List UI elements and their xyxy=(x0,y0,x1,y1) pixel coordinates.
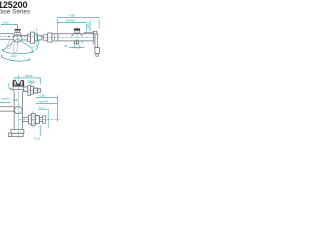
arc arrowheads xyxy=(1,49,34,60)
flow arrow on spout centerline xyxy=(8,36,10,37)
handle stem xyxy=(16,31,20,33)
outlet 2 far pipe xyxy=(39,117,42,121)
under-pipe box xyxy=(74,41,79,44)
dim line overall length xyxy=(57,17,99,19)
outlet 1 pipe xyxy=(22,87,27,92)
svg-text:Vase Series: Vase Series xyxy=(0,9,30,16)
outlet 2 pipe xyxy=(22,117,28,121)
left dim line xyxy=(0,102,11,104)
hex nut xyxy=(14,107,23,114)
valve centerline xyxy=(76,27,78,50)
wall plate edge xyxy=(92,31,94,43)
pipe nipple D xyxy=(38,35,42,40)
outlet 1 flange B xyxy=(31,86,34,94)
svg-text:G1/2: G1/2 xyxy=(86,22,90,29)
horizontal centerline of spout xyxy=(0,36,44,38)
pipe top and bottom xyxy=(58,34,93,41)
valve body circle xyxy=(13,35,22,42)
dim line 150 xyxy=(57,22,86,24)
outer swivel arc xyxy=(1,57,30,61)
spout stubs to left xyxy=(0,107,14,111)
wall plate tip xyxy=(96,53,98,56)
swivel line left xyxy=(3,39,18,51)
outlet 2 flange A xyxy=(28,115,31,124)
flange rect C xyxy=(35,34,38,41)
svg-text:≈100: ≈100 xyxy=(3,21,10,25)
svg-text:240°: 240° xyxy=(11,54,18,58)
rotated spout ghost 1 xyxy=(7,39,13,49)
bottom leader G1/2 xyxy=(39,126,41,136)
spout bottom edge xyxy=(0,38,13,40)
outlet 2 v centerline xyxy=(32,111,34,128)
lever grip (top view) xyxy=(74,29,80,31)
svg-text:150±15: 150±15 xyxy=(66,18,76,22)
leader G1/2 vertical xyxy=(89,21,91,31)
wall plate foot xyxy=(95,48,100,54)
flange centerline xyxy=(35,29,37,48)
cup dark prongs and valley xyxy=(14,82,23,87)
pipe to wall flange xyxy=(22,36,28,40)
svg-text:150±5: 150±5 xyxy=(25,74,33,78)
foot base xyxy=(11,129,24,133)
outlet 2 h centerline xyxy=(19,118,60,120)
G1/2 leader on flange xyxy=(36,41,39,51)
valve escutcheon trapezoid xyxy=(72,34,83,37)
outlet 1 centerline xyxy=(23,89,42,91)
outlet 2 end xyxy=(42,116,45,123)
svg-text:G1/2: G1/2 xyxy=(39,106,46,110)
outlet 1 nut xyxy=(33,88,37,93)
flange rect B xyxy=(31,32,35,43)
outlet 1 flange A xyxy=(28,85,31,95)
svg-text:G1/2: G1/2 xyxy=(34,137,41,141)
left connector rect B xyxy=(48,33,52,42)
handle bar (lever grip) xyxy=(15,29,21,30)
svg-text:≈285: ≈285 xyxy=(69,13,76,17)
svg-text:35: 35 xyxy=(64,44,68,48)
rotated spout ghost 2 xyxy=(13,40,18,53)
left connector rect A xyxy=(44,35,48,41)
vertical dim right xyxy=(56,96,58,122)
flange rect A xyxy=(28,34,31,41)
spout top edge xyxy=(0,33,14,35)
outlet 2 flange B xyxy=(31,114,35,126)
left connector cylinder xyxy=(52,34,58,41)
svg-text:max.40: max.40 xyxy=(1,96,10,100)
bonnet trapezoid xyxy=(14,33,22,36)
dim 35 under box xyxy=(69,47,85,49)
inner swivel arc xyxy=(2,51,33,54)
vertical centerline of handle xyxy=(17,27,19,45)
foot lip xyxy=(8,133,11,136)
top dim 150 xyxy=(14,77,40,79)
raised wall-end line xyxy=(84,32,94,33)
wall plate top step xyxy=(93,31,97,34)
handle front view (cup with horns) xyxy=(13,80,24,86)
rotation arc near handle xyxy=(9,83,11,90)
flow arrow xyxy=(12,99,16,101)
svg-text:35: 35 xyxy=(81,41,84,44)
ext line for wall face xyxy=(47,111,49,129)
svg-text:max.40: max.40 xyxy=(39,99,49,103)
outlet 2 nut xyxy=(35,116,39,124)
pipe centerline xyxy=(42,36,97,38)
foot lower xyxy=(12,133,23,136)
svg-text:≈150: ≈150 xyxy=(39,93,46,97)
dim 150 right xyxy=(36,96,58,98)
extension lines xyxy=(57,19,99,33)
vertical centerline xyxy=(17,75,19,138)
outlet 1 end xyxy=(38,89,41,93)
body tube xyxy=(14,92,22,130)
lever stem xyxy=(75,30,80,33)
dim max40 right xyxy=(36,102,58,104)
wall plate bar xyxy=(95,34,98,48)
swivel line right xyxy=(18,39,32,49)
body top section xyxy=(13,87,24,90)
